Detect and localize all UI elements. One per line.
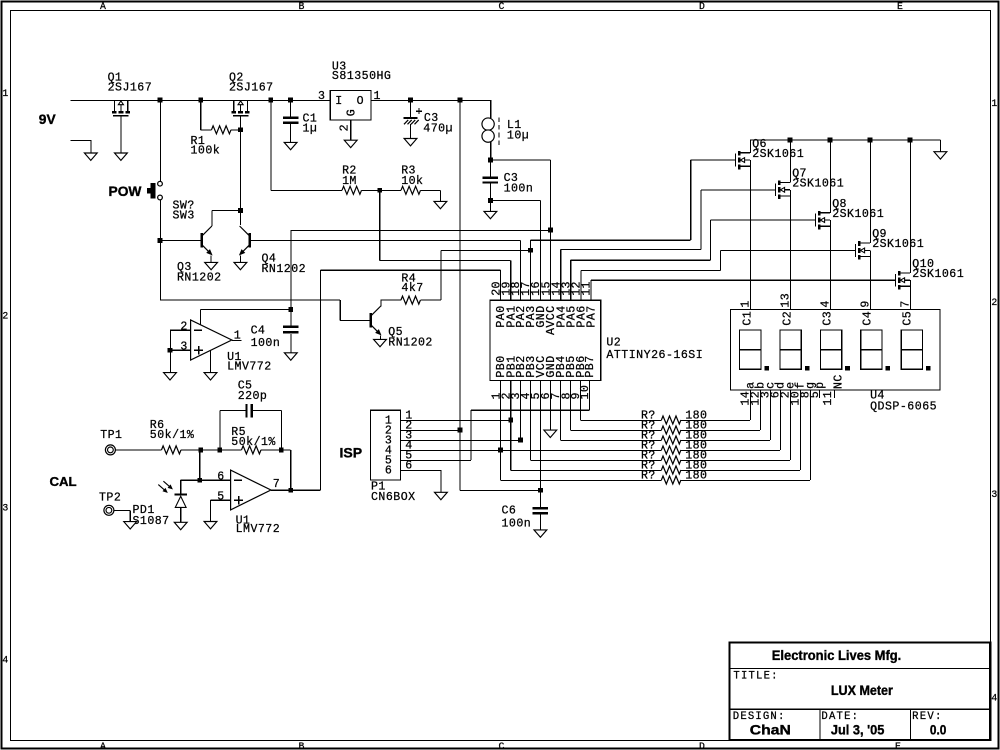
transistor Q10 (895, 274, 897, 287)
wire POW switch lower (159, 200, 161, 241)
ground C1 (284, 142, 297, 149)
wire PB3 column (529, 381, 531, 461)
junction rail-R2 (268, 98, 273, 103)
wire U2 pin14 to Q7 gate (560, 250, 562, 301)
transistor Q3 (201, 233, 204, 247)
svg-text:13: 13 (780, 293, 793, 307)
wire VCC column to C6 (539, 381, 541, 491)
wire PB1 column lower (510, 420, 512, 470)
svg-text:7: 7 (273, 478, 280, 491)
svg-text:1: 1 (991, 98, 997, 109)
ground C4 (284, 353, 297, 360)
svg-text:3: 3 (2, 503, 8, 514)
svg-text:R?: R? (641, 470, 655, 483)
svg-text:NC: NC (833, 375, 846, 389)
wire TP2 to ground (114, 509, 130, 511)
wire Q2 gate line down (240, 116, 242, 225)
svg-text:C6: C6 (502, 505, 516, 518)
wire output to PA0 pin 20 (319, 270, 321, 490)
svg-text:6: 6 (385, 464, 392, 477)
svg-text:D: D (699, 1, 705, 12)
wire R3 to ground (421, 189, 441, 191)
resistor R? 180 row 6 (510, 381, 512, 471)
junction rail Q9 (868, 138, 873, 143)
capacitor C5 feedback (219, 411, 221, 450)
ground Q1 (115, 153, 128, 160)
svg-text:1: 1 (740, 301, 753, 308)
wire U1a V- pin (210, 350, 212, 372)
svg-text:100n: 100n (504, 182, 533, 195)
svg-text:2SJ167: 2SJ167 (229, 82, 273, 95)
svg-text:2SK1061: 2SK1061 (792, 178, 844, 191)
svg-text:G: G (346, 109, 359, 116)
svg-text:A: A (100, 741, 106, 750)
connector P1 box (370, 410, 400, 480)
op-amp U1a body (191, 320, 232, 360)
wire 9V positive rail (70, 99, 330, 101)
svg-text:Jul 3, '05: Jul 3, '05 (831, 723, 885, 738)
svg-text:D: D (699, 741, 705, 750)
wire U1b pin5 to ground (211, 499, 231, 501)
wire U3 ground pin 2 (350, 120, 352, 140)
svg-text:3: 3 (991, 489, 997, 500)
wire U2 pin13 to Q8 gate (570, 260, 572, 300)
svg-text:4: 4 (2, 655, 8, 666)
ground Q5 (374, 339, 387, 346)
resistor R3 (401, 186, 421, 194)
switch SW3 POW (151, 183, 156, 199)
wire PA3 gate line to Q6 (530, 239, 690, 241)
svg-text:2: 2 (991, 297, 997, 308)
svg-text:C5: C5 (902, 311, 915, 325)
svg-text:RN1202: RN1202 (177, 271, 221, 284)
wire Q4 base to PA2 pin 18 (251, 239, 521, 241)
display U4 box (731, 310, 941, 390)
ground U1b pin5 (204, 522, 217, 529)
svg-text:6: 6 (217, 470, 224, 483)
svg-text:2SK1061: 2SK1061 (752, 148, 804, 161)
svg-text:E: E (897, 1, 903, 12)
svg-text:PB7: PB7 (584, 356, 597, 378)
svg-text:4: 4 (991, 693, 997, 704)
ground TP2 (124, 522, 137, 529)
pin U4 dp stub (818, 390, 820, 398)
svg-text:DATE:: DATE: (821, 711, 858, 723)
junction R2-R3 divider (377, 188, 382, 193)
wire power latch to Q5 base (159, 240, 161, 299)
svg-text:U2: U2 (606, 337, 620, 350)
svg-text:220p: 220p (238, 390, 267, 403)
capacitor C1 (290, 100, 292, 117)
svg-text:LMV772: LMV772 (227, 361, 271, 374)
svg-text:2SK1061: 2SK1061 (912, 268, 964, 281)
inductor L1 (490, 100, 492, 118)
wire U2 pin12 to Q9 gate (580, 270, 582, 300)
transistor Q6 (735, 154, 737, 167)
junction ISP1-PB1 (508, 418, 513, 423)
svg-text:10k: 10k (401, 175, 423, 188)
svg-text:DESIGN:: DESIGN: (733, 711, 785, 723)
svg-text:RN1202: RN1202 (262, 263, 306, 276)
wire R1 right lead (231, 129, 241, 131)
title block outer box (730, 642, 991, 740)
transistor Q2 (233, 100, 235, 111)
junction U1b output (288, 488, 293, 493)
svg-text:C2: C2 (782, 311, 795, 325)
svg-text:PA7: PA7 (585, 306, 598, 328)
svg-text:2: 2 (2, 311, 8, 322)
svg-text:S81350HG: S81350HG (332, 70, 391, 83)
svg-text:180: 180 (685, 470, 707, 483)
wire PA3 line up to Q6 gate (690, 160, 692, 240)
junction C5 right (279, 448, 284, 453)
svg-text:5: 5 (217, 490, 224, 503)
junction ISP4-PB0 (498, 448, 503, 453)
svg-text:3: 3 (180, 340, 187, 353)
svg-text:CAL: CAL (50, 474, 77, 489)
svg-text:100n: 100n (251, 337, 280, 350)
svg-text:QDSP-6065: QDSP-6065 (870, 401, 937, 414)
wire U1a V+ pin (199, 309, 201, 324)
wire PB0 column upper (500, 381, 502, 451)
svg-text:470µ: 470µ (423, 123, 452, 136)
transistor Q1 gate-drain wires (120, 116, 122, 153)
junction C5 left (217, 448, 222, 453)
capacitor C3b 100n (489, 160, 491, 177)
resistor R? 180 row 3 (559, 381, 561, 441)
wire Q3 collector (211, 211, 213, 226)
transistor Q7 (775, 183, 777, 196)
wire PB1 column upper (510, 381, 512, 421)
wire ISP pin5 to reset PB7 (401, 459, 471, 461)
ground ISP pin6 (435, 492, 448, 499)
wire R6 to summing node (181, 449, 201, 451)
wire R4 to PA3 (441, 249, 531, 251)
wire U1a output stub pin 1 (232, 339, 242, 341)
wire VCC to AVCC (490, 159, 550, 161)
svg-text:A: A (100, 1, 106, 12)
resistor R? 180 row 7 (500, 381, 502, 481)
ground C3 470u (404, 139, 417, 146)
svg-text:2SK1061: 2SK1061 (872, 238, 924, 251)
title block divider lines (730, 668, 990, 670)
svg-text:E: E (895, 741, 901, 750)
capacitor C6 (539, 490, 541, 507)
wire 9V negative lead (70, 139, 90, 141)
svg-text:3: 3 (318, 90, 325, 103)
wire ISP pin2 to VCC (401, 429, 460, 431)
wire U2 pin11 to Q10 gate (590, 280, 592, 300)
ground U1a inputs (164, 373, 177, 380)
svg-text:1: 1 (2, 88, 8, 99)
svg-text:C4: C4 (862, 311, 875, 325)
svg-text:100n: 100n (502, 518, 531, 531)
wire R2-R3 (362, 189, 402, 191)
junction ISP2-VCC (458, 428, 463, 433)
junction rail-VCC drop (458, 98, 463, 103)
wire summing to R5 (201, 449, 242, 451)
svg-text:POW: POW (109, 184, 143, 199)
wire PB2 column (519, 381, 521, 441)
svg-text:TITLE:: TITLE: (733, 671, 777, 683)
ground 9V negative (84, 153, 97, 160)
svg-text:0.0: 0.0 (930, 723, 947, 738)
svg-text:2SK1061: 2SK1061 (832, 208, 884, 221)
svg-text:1µ: 1µ (303, 123, 317, 136)
junction PA3-R4 line (528, 248, 533, 253)
junction R1 rail tap (198, 98, 203, 103)
svg-text:2SJ167: 2SJ167 (108, 82, 152, 95)
wire ISP pin6 to ground (401, 469, 441, 471)
testpoint TP1 (105, 445, 115, 455)
svg-text:ATTINY26-16SI: ATTINY26-16SI (606, 349, 702, 362)
svg-text:C4: C4 (251, 324, 265, 337)
svg-text:50k/1%: 50k/1% (231, 436, 275, 449)
junction ISP3-PB2 (518, 438, 523, 443)
svg-text:100k: 100k (191, 145, 220, 158)
resistor R? 180 row 4 (661, 446, 681, 454)
svg-text:2: 2 (180, 320, 187, 333)
svg-text:SW3: SW3 (173, 210, 195, 223)
transistor Q1 (113, 100, 115, 111)
wire divider to PA1 pin 19 (379, 190, 381, 260)
svg-text:p: p (814, 382, 827, 389)
resistor R2 (342, 186, 362, 194)
svg-text:S1087: S1087 (133, 515, 170, 528)
svg-text:O: O (357, 95, 364, 108)
svg-text:11: 11 (822, 391, 835, 405)
wire Q3 emitter to ground (210, 255, 212, 262)
ground R3 (434, 201, 447, 208)
svg-text:11: 11 (581, 281, 594, 295)
wire ISP pin1 to PB1 (401, 419, 511, 421)
junction R1-Q2 gate (238, 127, 243, 132)
ground C6 (534, 530, 547, 537)
resistor R1 (212, 126, 232, 134)
junction C3b ground node (488, 198, 493, 203)
testpoint TP2 (104, 505, 114, 515)
ground Q4 (234, 262, 247, 269)
wire R1 left lead (200, 100, 202, 130)
wire AVCC branch to opamp supply (291, 229, 551, 231)
ground FET rail (939, 140, 941, 152)
capacitor C3 470u polarized (410, 100, 412, 117)
junction AVCC branch (548, 228, 553, 233)
svg-text:4k7: 4k7 (401, 282, 423, 295)
svg-text:TP2: TP2 (99, 491, 121, 504)
ground Q3 (205, 262, 218, 269)
junction rail-C1 (288, 98, 293, 103)
wire FET source rail (750, 139, 940, 141)
junction rail Q7 (788, 138, 793, 143)
svg-text:B: B (299, 741, 305, 750)
svg-text:TP1: TP1 (100, 429, 122, 442)
junction rail-C3a (408, 98, 413, 103)
svg-text:I: I (335, 95, 342, 108)
transistor Q4 (248, 233, 251, 247)
ground U2 pin6 (544, 430, 557, 437)
wire PB0 column lower (500, 450, 502, 480)
junction C4 supply node (288, 307, 293, 312)
resistor R? 180 row 5 (529, 381, 531, 461)
wire TP1 to R6 (116, 449, 162, 451)
transistor Q5 (369, 313, 372, 327)
junction rail Q10 (908, 138, 913, 143)
wire U1b output (271, 489, 321, 491)
svg-text:RN1202: RN1202 (388, 336, 432, 349)
resistor R? 180 row 1 (579, 381, 581, 421)
svg-text:9V: 9V (39, 112, 57, 127)
resistor R? 180 row 2 (570, 381, 572, 431)
svg-text:4: 4 (820, 301, 833, 308)
svg-text:ISP: ISP (340, 445, 363, 461)
svg-text:LUX Meter: LUX Meter (831, 683, 894, 698)
svg-text:ChaN: ChaN (750, 723, 791, 738)
svg-text:C3: C3 (822, 311, 835, 325)
wire VCC long vertical to ISP area (459, 100, 461, 490)
wire GND to U2 pin 16 (490, 200, 540, 202)
svg-text:50k/1%: 50k/1% (150, 429, 194, 442)
junction Q3-Q4 collectors (238, 208, 243, 213)
decimal points U4 (764, 366, 769, 371)
junction L1 output VCC node (488, 158, 493, 163)
svg-text:7: 7 (900, 301, 913, 308)
photodiode PD1 (180, 480, 182, 493)
light arrows PD1 (158, 485, 166, 492)
wire to R2 (270, 100, 272, 190)
svg-text:C: C (499, 741, 505, 750)
svg-text:Electronic Lives Mfg.: Electronic Lives Mfg. (772, 648, 902, 663)
svg-text:10µ: 10µ (507, 130, 529, 143)
pin U4 NC stub (833, 390, 835, 398)
junction summing node (198, 448, 203, 453)
junction U1a pin3 (168, 348, 173, 353)
junction rail-POW (158, 98, 163, 103)
wire GND pin6 column (549, 381, 551, 431)
junction rail Q8 (828, 138, 833, 143)
regulator U3 box (330, 90, 371, 120)
wire AVCC to C4 (200, 308, 290, 310)
seven-segment digit outlines U4 (740, 330, 761, 369)
ic U2 box (490, 300, 601, 380)
transistor Q8 (815, 214, 817, 227)
svg-text:2: 2 (338, 124, 351, 131)
svg-text:CN6BOX: CN6BOX (371, 491, 415, 504)
svg-text:REV:: REV: (912, 711, 941, 723)
wire Q5 emitter to ground (379, 335, 381, 339)
wire ISP pin4 row d (401, 449, 662, 451)
resistor R6 (162, 446, 182, 454)
resistor R4 (381, 299, 401, 301)
capacitor C4 (290, 309, 292, 325)
svg-text:C1: C1 (742, 311, 755, 325)
junction VCC-C6 (538, 488, 543, 493)
svg-text:B: B (299, 1, 305, 12)
op-amp U1b body (231, 470, 271, 510)
wire POW switch upper (159, 100, 161, 181)
svg-text:1: 1 (374, 90, 381, 103)
wire ISP pin3 to PB2 (401, 439, 521, 441)
resistor R5 (242, 446, 262, 454)
svg-text:10: 10 (579, 385, 592, 399)
junction inverting node (197, 478, 202, 483)
ground U3 (344, 140, 357, 147)
wire U1a inputs (170, 329, 191, 331)
transistor Q3 base wire (158, 238, 163, 243)
svg-text:C: C (499, 1, 505, 12)
wire Q5 collector to R4 (380, 300, 382, 306)
svg-text:9: 9 (860, 301, 873, 308)
svg-text:LMV772: LMV772 (236, 523, 280, 536)
ground PD1 (174, 522, 187, 529)
wire inverting input (199, 450, 201, 480)
wire Q4 emitter to ground (239, 255, 241, 262)
svg-text:1M: 1M (342, 175, 356, 188)
ground U1a V- (204, 373, 217, 380)
transistor Q9 (855, 244, 857, 257)
ground C3b (489, 201, 491, 212)
wire R5 to output (261, 449, 291, 451)
